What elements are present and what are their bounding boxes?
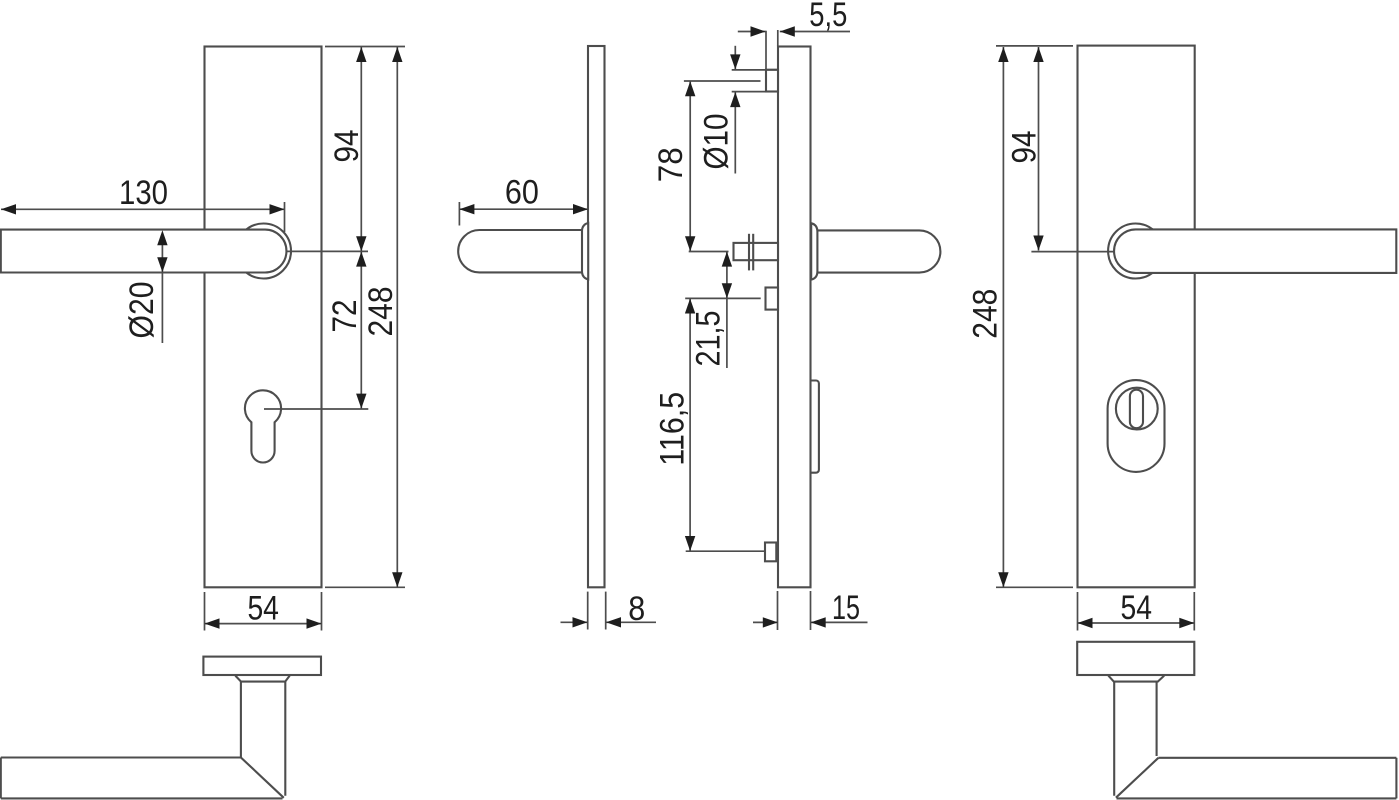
leader line keyhole centre (view 1) <box>264 408 368 410</box>
svg-text:78: 78 <box>652 147 690 182</box>
svg-text:116,5: 116,5 <box>654 392 692 466</box>
svg-text:54: 54 <box>1121 589 1153 627</box>
svg-text:248: 248 <box>967 289 1005 339</box>
lever grip bottom edge (bottom view, right) <box>1117 797 1397 799</box>
lever handle (front view, view 1) <box>1 230 287 273</box>
svg-text:21,5: 21,5 <box>690 311 728 367</box>
rose flange (bottom view, right) <box>1077 642 1194 675</box>
neck right edge (bottom view, right) <box>1156 682 1158 756</box>
security plate (side view, 15 mm) <box>778 47 811 588</box>
svg-text:Ø10: Ø10 <box>698 114 736 170</box>
dimension 78 (screw to handle centre) <box>652 81 695 251</box>
dimension 116,5 (screw spacing) <box>654 299 696 552</box>
dimension 60 (handle projection) <box>459 174 588 226</box>
rosette circle behind lever hub (view 4) <box>1108 224 1163 279</box>
svg-text:248: 248 <box>362 287 400 337</box>
extension line lower screw centre <box>686 550 765 552</box>
dimension 54 (plate width, view 1) <box>205 590 322 631</box>
svg-text:94: 94 <box>1006 131 1044 164</box>
dimension 72 (handle centre to keyhole) <box>326 252 367 409</box>
backplate (front view, left) <box>205 47 322 588</box>
extension line top screw centre <box>684 80 761 82</box>
dimension 54 (plate width, view 4) <box>1078 589 1195 631</box>
lever handle (front view, view 4) <box>1114 229 1396 273</box>
lower small screw head <box>765 543 776 562</box>
dimension 5,5 (screw head height) <box>738 0 850 69</box>
svg-text:8: 8 <box>628 590 645 628</box>
svg-text:Ø20: Ø20 <box>123 282 161 339</box>
through-bolt at handle centre <box>734 234 779 271</box>
cylinder core circle <box>1116 388 1158 430</box>
lever grip top edge (bottom view, left) <box>1 756 241 758</box>
extension line plate top (view 1) <box>325 46 405 48</box>
cylinder protection bump (right face of plate) <box>811 381 819 473</box>
svg-text:94: 94 <box>328 130 366 163</box>
lever grip top edge (bottom view, right) <box>1158 757 1396 759</box>
lever handle (side view, view 3) <box>811 223 940 279</box>
dimension 94 (top to handle centre, view 4) <box>1006 47 1044 251</box>
mitre diagonal (bottom view, left) <box>241 758 284 798</box>
dimension 248 (plate height, view 1) <box>362 47 403 587</box>
neck flare (bottom view, left) <box>235 676 289 682</box>
neck right edge (bottom view, left) <box>284 682 286 796</box>
keyway slot <box>1130 390 1143 429</box>
extension line handle centre (view 3) <box>689 251 729 253</box>
dimension Ø10 (screw head diameter) <box>698 46 779 174</box>
neck flare (bottom view, right) <box>1108 676 1164 682</box>
extension line upper screw centre <box>685 297 761 299</box>
dimension 21,5 (handle centre to screw) <box>690 252 733 368</box>
lever grip left end (bottom view, left) <box>0 758 2 799</box>
lever grip right end (bottom view, right) <box>1395 758 1397 799</box>
svg-text:130: 130 <box>119 174 168 212</box>
extension line plate top (view 4) <box>996 45 1073 47</box>
euro-profile keyhole cutout (view 1) <box>245 390 281 462</box>
dimension 130 (lever length) <box>1 174 285 232</box>
svg-text:5,5: 5,5 <box>809 0 847 34</box>
svg-text:72: 72 <box>326 300 364 333</box>
rose flange (bottom view, left) <box>203 657 321 675</box>
dimension Ø20 (lever diameter) <box>123 230 168 343</box>
extension line plate bottom (view 1) <box>325 586 405 588</box>
dimension 94 (top to handle centre, view 1) <box>328 47 367 251</box>
leader line handle centre (view 4) <box>1031 251 1114 253</box>
lever grip bottom edge (bottom view, left) <box>1 797 283 799</box>
leader line handle centre (view 1) <box>286 250 368 252</box>
neck left edge (bottom view, right) <box>1113 682 1115 796</box>
top fixing screw head <box>766 70 778 92</box>
security plate (front view, right) <box>1078 46 1195 588</box>
svg-text:60: 60 <box>505 174 539 212</box>
neck left edge (bottom view, left) <box>240 682 242 758</box>
dimension 8 (plate thickness) <box>561 590 657 630</box>
extension line plate bottom (view 4) <box>996 586 1073 588</box>
rosette circle behind lever hub (view 1) <box>236 224 291 279</box>
oval security escutcheon <box>1108 380 1165 472</box>
upper small screw head <box>766 288 779 310</box>
lever handle (side view) <box>458 223 588 279</box>
mitre diagonal (bottom view, right) <box>1116 758 1159 798</box>
svg-text:15: 15 <box>832 589 860 627</box>
dimension 15 (security plate thickness) <box>753 589 868 630</box>
backplate (side view, 8 mm) <box>588 46 605 587</box>
dimension 248 (plate height, view 4) <box>967 47 1009 587</box>
svg-text:54: 54 <box>247 590 279 628</box>
